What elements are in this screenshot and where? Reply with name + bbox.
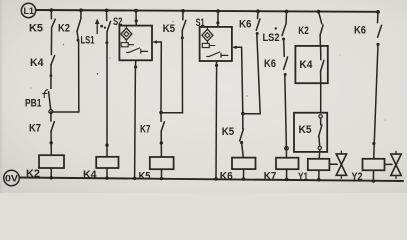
wire boxed K5 top — [320, 118, 322, 125]
node rung H junction dot — [241, 112, 245, 116]
node rung A top dot — [49, 8, 53, 12]
wire rung J vertical top — [285, 12, 287, 24]
wire rung A K4 to PB1 — [50, 65, 52, 89]
wire coil K2 to rail — [50, 168, 52, 178]
wire boxed K5 bottom — [318, 137, 321, 159]
node K5 contact lower terminal dot — [181, 36, 184, 39]
node pre-coil K2 dot — [50, 141, 53, 144]
node rung C bottom dot — [105, 176, 109, 180]
valve symbol V2 — [391, 154, 401, 165]
svg-text:Y1: Y1 — [298, 171, 308, 183]
node pre-coil Y2 dot — [372, 142, 375, 145]
contact K5 blade (boxed) — [319, 125, 322, 137]
wire Y1 to valve1 — [329, 163, 337, 165]
contact LS1 blade (rung C) — [107, 21, 111, 32]
contact K2 blade (rung K) — [320, 25, 323, 35]
svg-text:S1: S1 — [196, 17, 205, 29]
wire K5 branch horizontal — [161, 112, 183, 114]
contact K6 blade (rung J) — [284, 57, 288, 70]
svg-text:K5: K5 — [222, 126, 234, 138]
svg-text:K2: K2 — [298, 25, 309, 37]
wire rung D rail to S2 box — [135, 11, 137, 26]
wire rung J to coil K7 — [285, 75, 287, 158]
wire rung B down to seal branch — [77, 32, 79, 112]
wire coil Y2 to rail — [372, 170, 374, 181]
wire S2 bottom port to rail — [135, 60, 136, 178]
node rung B top dot — [79, 8, 83, 12]
node K6 lower terminal dot (rung L) — [376, 43, 379, 46]
svg-text:LS1: LS1 — [81, 35, 95, 47]
svg-text:K5: K5 — [139, 170, 151, 182]
sensor box S1 — [200, 27, 232, 61]
node pre-coil K7 dot — [285, 147, 289, 151]
node boxed K5 top terminal — [319, 115, 322, 118]
node boxed K5 bottom terminal — [318, 146, 321, 149]
node S2 bottom terminal dot — [134, 65, 137, 68]
wire rung A K5 to K4 — [50, 27, 52, 54]
svg-text:L1: L1 — [24, 6, 35, 16]
valve symbol V1 — [336, 154, 346, 165]
sensor box S2 — [119, 26, 152, 61]
node rung K top dot — [317, 10, 321, 14]
wire coil K4 to rail — [106, 168, 108, 178]
svg-text:0V: 0V — [5, 174, 18, 184]
box around K4 contact — [295, 46, 327, 83]
wire rung K vertical top — [319, 12, 322, 24]
coil Y1 — [308, 159, 330, 170]
svg-text:K5: K5 — [299, 124, 312, 136]
wire box1 to box2 — [320, 83, 322, 113]
node L1 terminal circle — [21, 3, 35, 17]
symbol S2 internal switch — [127, 48, 148, 53]
node S2 top terminal dot — [135, 19, 138, 22]
wire rung A vertical top — [50, 10, 52, 19]
wire S1 right port — [236, 47, 243, 113]
node LS2 actuator dot — [275, 27, 277, 29]
coil K6 — [232, 158, 256, 170]
symbol S2 proximity diamond — [121, 28, 132, 40]
node pre-coil K5 dot — [160, 141, 163, 144]
contact K2 blade (rung B) — [77, 19, 81, 32]
wire rung A PB1 to K7 — [50, 112, 52, 121]
node rung A bottom dot — [49, 176, 53, 180]
node rung L bottom dot — [372, 179, 376, 183]
wire top rail — [36, 10, 378, 12]
box around K5 contact — [294, 113, 327, 152]
contact PB1 blade with f flag — [49, 92, 51, 110]
node S1 bottom terminal dot — [215, 64, 218, 67]
symbol S2 right port arrow — [152, 40, 157, 44]
contact K6 blade (rung I) — [256, 19, 260, 30]
wire box1 top to K4 contact — [320, 46, 322, 60]
contact K4 blade (boxed) — [321, 60, 324, 71]
node K2 contact lower terminal dot — [77, 39, 80, 42]
svg-text:K6: K6 — [354, 25, 366, 37]
scan speckles — [30, 21, 385, 121]
node S2 rung bottom dot — [133, 177, 137, 181]
wire S2 right port — [156, 42, 161, 113]
node rung F top dot — [181, 9, 185, 13]
svg-text:K6: K6 — [264, 58, 276, 70]
svg-text:K7: K7 — [264, 171, 277, 183]
wire rung C to coil K4 — [106, 32, 108, 157]
svg-text:Y2: Y2 — [352, 171, 363, 183]
wire K4 contact to box1 bottom — [320, 71, 322, 83]
wire coil Y1 to rail — [318, 170, 320, 180]
contact K5 blade (rung F) — [182, 20, 186, 30]
svg-text:K7: K7 — [140, 123, 151, 135]
wire rung B vertical top — [80, 10, 82, 18]
coil K5 — [150, 157, 174, 169]
symbol S2 output element — [121, 43, 128, 47]
symbol S1 right port arrow — [232, 46, 237, 50]
node LS2 lower terminal dot — [282, 38, 285, 41]
wire rung L vertical top — [377, 12, 380, 23]
symbol S1 internal switch — [207, 52, 228, 57]
wire K6 branch horizontal — [243, 113, 260, 115]
wire coil K6 to rail — [243, 169, 245, 179]
node rung K bottom dot — [317, 178, 321, 182]
node rung J top dot — [285, 10, 289, 14]
wire rung G rail to S1 box — [217, 11, 219, 27]
coil K4 — [96, 157, 118, 168]
coil K2 — [39, 155, 64, 168]
svg-text:K7: K7 — [29, 123, 41, 135]
wire rung I down to branch — [257, 34, 260, 114]
node K6 lower terminal dot (rung I) — [256, 32, 259, 35]
wire K2 seal branch horizontal — [51, 111, 79, 113]
svg-text:K4: K4 — [83, 169, 97, 181]
node rung E junction dot — [159, 111, 163, 115]
node rung H bottom dot — [242, 177, 246, 181]
node rail end dot — [376, 10, 380, 14]
svg-text:LS2: LS2 — [263, 32, 280, 44]
contact K6 blade (rung L) — [378, 25, 382, 37]
contact K7 blade (rung E) — [161, 122, 164, 132]
contact K5 blade — [52, 19, 55, 27]
symbol S1 output element — [202, 43, 209, 47]
node 0V terminal circle — [4, 170, 20, 186]
contact LS2 blade — [282, 24, 286, 36]
wire rung F down to branch — [181, 31, 183, 113]
svg-text:K5: K5 — [29, 23, 43, 35]
wire rung E K7 to coil K5 — [160, 131, 162, 156]
svg-text:K4: K4 — [30, 57, 44, 69]
svg-text:K4: K4 — [299, 59, 313, 71]
left scan edge shading — [0, 0, 2, 193]
node rung D top dot — [134, 9, 138, 13]
wire rung C vertical top — [106, 10, 108, 20]
svg-text:PB1: PB1 — [25, 98, 42, 110]
wire coil K5 to rail — [161, 169, 163, 178]
wire rung L to coil Y2 — [374, 44, 378, 159]
wire rung A K7 to coil — [50, 131, 52, 155]
node K4 lower terminal dot — [50, 74, 53, 77]
svg-text:K6: K6 — [239, 19, 252, 31]
symbol S1 proximity diamond — [202, 29, 213, 41]
node S1 rung bottom dot — [214, 177, 218, 181]
contact K5 blade (rung H) — [240, 129, 244, 141]
contact K7 blade (rung A) — [51, 122, 54, 132]
wire Y2 to valve2 — [385, 163, 393, 165]
wire rung J LS2 to K6 — [283, 39, 286, 57]
svg-text:K2: K2 — [26, 168, 40, 180]
coil K7 — [276, 158, 299, 170]
svg-text:K2: K2 — [58, 23, 70, 35]
node K5 lower terminal dot (rung H) — [240, 141, 243, 144]
node S1 top terminal dot — [216, 21, 219, 24]
svg-text:K5: K5 — [163, 23, 176, 35]
contact K4 blade — [51, 56, 55, 65]
svg-text:K6: K6 — [220, 170, 233, 182]
wire rung I vertical top — [257, 11, 260, 18]
node rung J bottom dot — [285, 178, 289, 182]
svg-text:S2: S2 — [113, 16, 123, 28]
wire rung K K2 to box1 — [319, 35, 321, 46]
node pre-coil K4 dot — [105, 144, 108, 147]
wire S1 bottom port to rail — [215, 61, 218, 179]
wire rung H to K5 contact — [242, 114, 244, 129]
node rung G top dot — [216, 9, 220, 13]
symbol LS1 actuator arrow — [96, 22, 98, 34]
wire rung H to coil K6 — [242, 143, 244, 158]
wire rung E to K7 contact — [160, 113, 162, 122]
node LS1 lower terminal dot — [105, 41, 108, 44]
coil Y2 — [363, 159, 385, 171]
node rung I top dot — [256, 9, 260, 13]
node rung E bottom dot — [160, 177, 164, 181]
wire rung F vertical top — [182, 11, 184, 20]
node rung C top dot — [105, 9, 109, 13]
node PB1 bottom junction — [49, 110, 53, 114]
wire coil K7 to rail — [286, 169, 288, 179]
node K6 lower terminal dot (rung J) — [284, 73, 287, 76]
wire bottom rail — [19, 178, 403, 182]
